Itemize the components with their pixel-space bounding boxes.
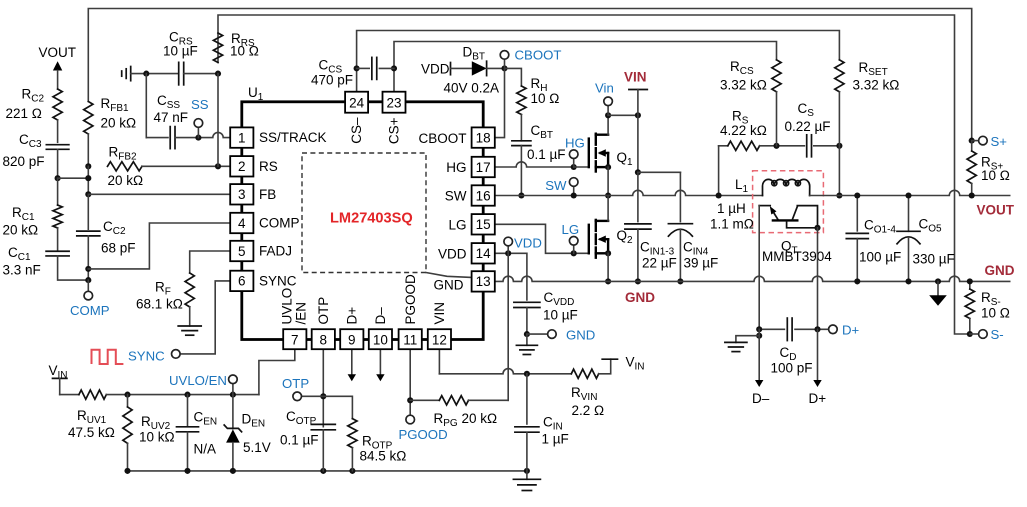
- svg-text:VIN: VIN: [624, 70, 647, 85]
- label CEN: [194, 410, 218, 428]
- svg-text:10 µF: 10 µF: [543, 308, 578, 323]
- svg-text:15: 15: [476, 217, 491, 232]
- pin 10 label D–: [373, 307, 388, 325]
- junction RS- top: [967, 278, 973, 284]
- net label GND (right): [985, 263, 1015, 278]
- label Q2: [617, 228, 634, 246]
- label CCS value: [311, 73, 353, 88]
- svg-text:20 kΩ: 20 kΩ: [3, 223, 39, 238]
- terminal COMP: [84, 280, 93, 300]
- wire RC1-CC1: [57, 228, 59, 251]
- label CIN4: [683, 240, 709, 258]
- junction RSET-VOUT: [836, 192, 842, 198]
- transistor QT (MMBT3904): [759, 206, 820, 231]
- svg-text:10 Ω: 10 Ω: [531, 91, 560, 106]
- svg-text:100 pF: 100 pF: [771, 361, 813, 376]
- net arrow pin9 D+: [348, 349, 356, 381]
- wire pin14 VDD: [483, 253, 527, 300]
- resistor RH: [517, 86, 526, 115]
- junction HG stub: [571, 164, 577, 170]
- terminal S+: [972, 136, 988, 145]
- svg-text:6: 6: [238, 274, 246, 289]
- pin 8 label OTP: [316, 297, 331, 325]
- transistor Q2 (low-side MOSFET): [589, 220, 611, 258]
- label CC3 value: [3, 154, 45, 169]
- IC U1 inner dashed box: [302, 153, 426, 273]
- terminal SW: [569, 178, 578, 196]
- resistor RRS: [213, 33, 222, 63]
- label Q1: [617, 150, 634, 168]
- wire RCS lower: [776, 92, 778, 146]
- ground (sideways) at CRS: [122, 67, 131, 81]
- pin 12 label VIN: [432, 302, 447, 325]
- wire CO5 upper: [905, 192, 911, 231]
- junction COMP node: [85, 277, 91, 283]
- junction RRS bottom node: [215, 71, 221, 77]
- wire PGOOD-RPG: [410, 399, 439, 401]
- pin 8 box: [312, 329, 335, 349]
- terminal HG: [569, 150, 578, 167]
- svg-text:7: 7: [291, 332, 299, 347]
- label RS: [732, 109, 749, 127]
- label DBT value: [444, 81, 500, 96]
- svg-text:16: 16: [476, 188, 491, 203]
- pin 1 box: [230, 127, 253, 147]
- resistor RUV2: [123, 395, 132, 471]
- pin 13 box: [472, 271, 495, 291]
- svg-text:820 pF: 820 pF: [3, 154, 45, 169]
- label CC1: [8, 245, 31, 263]
- label CVDD value: [543, 308, 578, 323]
- label S+: [991, 134, 1008, 149]
- junction DEN bottom: [230, 468, 236, 474]
- label RCS: [730, 59, 754, 77]
- junction RS+-VOUT: [969, 192, 975, 198]
- svg-text:HG: HG: [446, 160, 466, 175]
- wire RPG to VDD: [469, 399, 509, 401]
- diode DBT: [472, 61, 487, 75]
- wire RUV1 to UVLO node: [106, 394, 259, 396]
- capacitor CC2: [77, 231, 100, 236]
- label U1: [248, 85, 264, 103]
- capacitor CVDD: [514, 302, 540, 307]
- junction CCS right: [391, 65, 397, 71]
- capacitor CC1: [46, 251, 69, 256]
- pin 5 box: [230, 241, 253, 261]
- junction CBT-SW: [518, 192, 524, 198]
- svg-text:PGOOD: PGOOD: [399, 427, 448, 442]
- label CSS: [157, 93, 180, 111]
- resistor RF: [185, 273, 194, 307]
- wire COTP lower: [322, 430, 324, 471]
- wire CS-RSET: [814, 145, 840, 147]
- wire RFB1-FB node: [87, 134, 89, 166]
- wire VOUT rail: [810, 190, 1010, 195]
- svg-text:D+: D+: [345, 307, 360, 325]
- wire FB column mid: [87, 166, 89, 194]
- wire gnd-CRS: [131, 73, 179, 75]
- wire CC1 to COMP node: [58, 256, 89, 280]
- label RFB2 value: [108, 173, 144, 188]
- wire node-RC1: [57, 178, 59, 205]
- label ROTP value: [360, 449, 407, 464]
- junction RRS-RS node: [215, 163, 221, 169]
- svg-text:0.1 µF: 0.1 µF: [527, 147, 566, 162]
- label CO5 value: [913, 252, 955, 267]
- label RUV2 value: [139, 430, 175, 445]
- ground at D-: [725, 336, 759, 352]
- label RS value: [720, 123, 767, 138]
- wire CO5 lower: [905, 237, 911, 284]
- power ground symbol: [929, 278, 947, 305]
- wire VDD-DBT: [451, 67, 472, 69]
- terminal UVLO/EN: [229, 375, 238, 395]
- svg-text:VDD: VDD: [514, 236, 542, 251]
- label CD value: [771, 361, 813, 376]
- wire comp-node to FB column: [58, 177, 89, 179]
- label COTP: [286, 409, 317, 427]
- label HG: [565, 136, 585, 151]
- junction COTP bottom: [320, 468, 326, 474]
- transistor Q1 (high-side MOSFET): [589, 134, 611, 172]
- svg-text:D–: D–: [752, 391, 770, 406]
- svg-text:3: 3: [238, 187, 246, 202]
- label RPG: [434, 411, 498, 429]
- wire RRS down to RS node: [217, 74, 219, 167]
- label RH value: [531, 91, 560, 106]
- svg-text:47.5 kΩ: 47.5 kΩ: [68, 425, 115, 440]
- wire pin8 OTP: [322, 349, 324, 427]
- capacitor CSS: [170, 127, 175, 149]
- pin 7 label UVLO/EN: [280, 288, 309, 325]
- svg-text:1.1 mΩ: 1.1 mΩ: [710, 217, 754, 232]
- zener diode DEN: [224, 395, 241, 471]
- svg-text:VDD: VDD: [438, 247, 467, 262]
- svg-text:COMP: COMP: [259, 216, 300, 231]
- label D+ terminal: [842, 323, 860, 338]
- svg-text:RS: RS: [259, 159, 278, 174]
- pin 23 label CS+: [387, 117, 402, 144]
- svg-text:18: 18: [476, 130, 491, 145]
- pin 7 box: [283, 329, 306, 349]
- pin 3 label FB: [259, 187, 276, 202]
- svg-text:S+: S+: [991, 134, 1008, 149]
- wire pin12 VIN: [439, 369, 571, 374]
- svg-text:VOUT: VOUT: [39, 45, 77, 60]
- svg-text:0.1 µF: 0.1 µF: [280, 433, 319, 448]
- label CBT: [531, 123, 554, 141]
- wire Q2 source to GND rail: [607, 253, 609, 281]
- label RRS: [231, 31, 255, 49]
- wire S- sense line (top): [218, 15, 970, 334]
- pin 23 box: [383, 92, 406, 113]
- svg-text:40V 0.2A: 40V 0.2A: [444, 81, 500, 96]
- svg-text:14: 14: [476, 246, 492, 261]
- junction CIN4 gnd: [677, 278, 683, 284]
- pin 12 box: [428, 329, 451, 349]
- wire CIN1-3 upper: [637, 172, 639, 221]
- label RUV1: [77, 408, 107, 426]
- svg-text:10 Ω: 10 Ω: [981, 168, 1010, 183]
- junction RFB2 tap: [85, 163, 91, 169]
- junction CIN1-3 gnd: [635, 278, 641, 284]
- junction RUV2 top: [124, 392, 130, 398]
- wire CIN4 upper: [679, 172, 681, 221]
- label CC2: [103, 219, 126, 237]
- terminal GND (analog): [527, 330, 556, 339]
- label RFB2: [109, 145, 138, 163]
- svg-text:D+: D+: [809, 391, 827, 406]
- wire QT base to D+ node: [817, 228, 819, 329]
- wire Vin to VIN supply: [608, 114, 638, 116]
- wire RS left leg: [716, 146, 722, 199]
- capacitor CEN: [177, 395, 199, 471]
- wire CIN1-3 lower: [637, 229, 639, 281]
- wire HG to Q1 gate: [574, 166, 589, 168]
- pin 9 label D+: [345, 307, 360, 325]
- svg-text:10 µF: 10 µF: [163, 44, 198, 59]
- label SW: [545, 178, 567, 193]
- supply VIN (input): [599, 359, 618, 374]
- wire RSET lower: [838, 92, 840, 146]
- ground at RF: [178, 307, 201, 335]
- svg-text:10 Ω: 10 Ω: [981, 306, 1010, 321]
- capacitor CCS: [372, 57, 377, 79]
- label CSS value: [154, 110, 189, 125]
- pin 14 box: [472, 243, 495, 263]
- junction LG stub: [571, 250, 577, 256]
- pin 15 label LG: [448, 218, 466, 233]
- svg-text:2.2 Ω: 2.2 Ω: [572, 403, 605, 418]
- label VDD: [514, 236, 542, 251]
- wire CCS left: [357, 67, 370, 69]
- net label VOUT (right): [977, 203, 1015, 218]
- svg-text:SS: SS: [191, 97, 209, 112]
- pin 4 box: [230, 213, 253, 233]
- wire RC2-CC3: [57, 120, 59, 142]
- label L1 value: [717, 201, 746, 216]
- svg-text:11: 11: [403, 332, 417, 347]
- wire thermal pad to GND pin13: [426, 273, 471, 278]
- label RS+: [981, 155, 1003, 173]
- wire CO1-4 upper: [854, 192, 860, 230]
- wire RS left: [719, 145, 728, 147]
- svg-text:100 µF: 100 µF: [859, 250, 901, 265]
- pin 17 box: [472, 157, 495, 177]
- wire CBOOT to pin18: [483, 68, 504, 137]
- junction Vin node: [605, 112, 611, 118]
- wire CC3-node: [57, 149, 59, 178]
- pin 2 box: [230, 156, 253, 176]
- wire RH-CBT: [520, 115, 522, 141]
- wire pin15 LG: [483, 224, 589, 253]
- wire pin17 HG with hop: [483, 162, 574, 167]
- label S-: [991, 327, 1004, 342]
- terminal VDD: [504, 237, 513, 253]
- capacitor CRS: [179, 62, 184, 85]
- capacitor CIN1-3: [625, 224, 651, 229]
- terminal PGOOD: [406, 415, 415, 424]
- svg-text:SW: SW: [445, 189, 467, 204]
- capacitor CO5 (polarized): [897, 231, 920, 244]
- svg-text:10 kΩ: 10 kΩ: [139, 430, 175, 445]
- svg-text:4.22 kΩ: 4.22 kΩ: [720, 123, 767, 138]
- wire pin24 to RSET: [357, 31, 840, 92]
- wire VIN column: [637, 115, 639, 172]
- label DEN: [242, 412, 266, 430]
- net arrow VOUT: [53, 61, 62, 89]
- pin 24 box: [345, 92, 368, 113]
- wire bottom gnd rail: [128, 470, 527, 472]
- label DEN value: [243, 440, 271, 455]
- label COMP: [70, 303, 110, 318]
- svg-text:1: 1: [238, 130, 246, 145]
- wire CCS right: [379, 67, 394, 69]
- svg-text:SS/TRACK: SS/TRACK: [259, 130, 327, 145]
- label RFB1: [101, 96, 130, 114]
- pin 18 box: [472, 127, 495, 147]
- resistor RPG: [439, 396, 468, 405]
- pin 5 label FADJ: [259, 244, 292, 259]
- label D-: [752, 391, 770, 406]
- net arrow D+: [813, 329, 821, 387]
- svg-text:SYNC: SYNC: [128, 349, 165, 364]
- junction CVDD gnd node: [524, 331, 530, 337]
- junction PGOOD node: [407, 397, 413, 403]
- capacitor CO1-4: [846, 233, 868, 238]
- wire Q2 drain to SW rail: [607, 196, 609, 221]
- pin 13 label GND: [434, 278, 464, 293]
- terminal D+: [829, 325, 838, 334]
- junction D- gnd tap: [756, 333, 762, 339]
- terminal SYNC: [172, 350, 181, 359]
- label L1 DCR: [710, 217, 754, 232]
- label SS: [191, 97, 209, 112]
- terminal S-: [970, 330, 987, 339]
- wire CIN bridge: [638, 171, 681, 173]
- wire SW rail: [483, 190, 762, 195]
- svg-text:0.22 µF: 0.22 µF: [785, 119, 831, 134]
- label CIN1-3: [640, 240, 675, 258]
- label CS: [798, 101, 815, 119]
- label UVLO/EN: [169, 373, 227, 388]
- wire DBT-CBOOT node: [487, 67, 505, 69]
- pin 11 label PGOOD: [403, 274, 418, 325]
- supply VIN: [629, 90, 647, 116]
- wire pin6 SYNC: [180, 281, 230, 354]
- svg-text:22 µF: 22 µF: [642, 256, 677, 271]
- net label GND (mid): [625, 290, 655, 305]
- junction CIN bottom: [524, 468, 530, 474]
- resistor RSET: [835, 60, 844, 92]
- svg-text:5.1V: 5.1V: [243, 440, 271, 455]
- junction Q2-GND: [605, 278, 611, 284]
- junction RSET node: [836, 143, 842, 149]
- label CIN value: [542, 432, 569, 447]
- terminal SS: [194, 119, 203, 138]
- inductor L1: [763, 179, 810, 195]
- svg-text:CS+: CS+: [387, 117, 402, 144]
- pin 4 label COMP: [259, 216, 300, 231]
- label RVIN value: [572, 403, 605, 418]
- ground at CVDD: [516, 334, 537, 354]
- junction S- node: [967, 331, 973, 337]
- svg-text:24: 24: [349, 95, 365, 110]
- resistor ROTP: [348, 419, 357, 448]
- label OTP: [282, 376, 309, 391]
- label PGOOD: [399, 427, 448, 442]
- label CO5: [919, 217, 943, 235]
- svg-text:S-: S-: [991, 327, 1004, 342]
- svg-text:UVLO/EN: UVLO/EN: [169, 373, 227, 388]
- pin 1 label SS/TRACK: [259, 130, 327, 145]
- resistor RC2: [53, 89, 62, 120]
- svg-text:23: 23: [386, 95, 401, 110]
- wire CVDD to agnd: [526, 308, 528, 335]
- resistor RS-: [965, 281, 974, 334]
- wire Q1 drain: [607, 115, 609, 134]
- label RRS value: [230, 44, 259, 59]
- capacitor CD: [787, 318, 792, 341]
- label RH: [531, 76, 548, 94]
- label CEN value: [194, 442, 217, 457]
- svg-text:CS–: CS–: [349, 117, 364, 144]
- svg-text:COMP: COMP: [70, 303, 110, 318]
- resistor RVIN: [571, 369, 598, 378]
- label L1: [735, 177, 749, 195]
- svg-text:9: 9: [348, 332, 356, 347]
- junction CIN top: [524, 371, 530, 377]
- resistor RS: [728, 141, 760, 150]
- svg-text:PGOOD: PGOOD: [403, 274, 418, 325]
- resistor RFB1: [84, 102, 93, 135]
- label GND terminal: [566, 328, 595, 343]
- junction comp-tap: [85, 175, 91, 181]
- label QT: [781, 239, 798, 257]
- svg-text:LM27403SQ: LM27403SQ: [330, 211, 413, 227]
- svg-text:10 Ω: 10 Ω: [230, 44, 259, 59]
- wire QT emitter to D- node: [758, 206, 760, 330]
- junction DEN top: [230, 392, 236, 398]
- net label VIN: [624, 70, 647, 85]
- terminal LG: [569, 237, 578, 254]
- svg-text:OTP: OTP: [316, 297, 331, 325]
- label COTP value: [280, 433, 319, 448]
- wire RFB2 to pin2: [142, 165, 230, 167]
- svg-text:84.5 kΩ: 84.5 kΩ: [360, 449, 407, 464]
- label SYNC: [128, 349, 165, 364]
- svg-text:VOUT: VOUT: [977, 203, 1015, 218]
- label RC1 value: [3, 223, 39, 238]
- label RS+ value: [981, 168, 1010, 183]
- wire ROTP lower: [351, 448, 353, 471]
- net arrow pin10 D-: [376, 349, 384, 381]
- svg-text:470 pF: 470 pF: [311, 73, 353, 88]
- pin 24 label CS-: [349, 117, 364, 144]
- label RC2 value: [6, 106, 42, 121]
- svg-text:20 kΩ: 20 kΩ: [101, 116, 137, 131]
- wire OTP to ROTP: [323, 396, 352, 418]
- label CO1-4: [864, 218, 896, 236]
- wire FB to pin3: [88, 193, 230, 195]
- wire VDD to RPG pullup: [507, 253, 509, 400]
- capacitor CIN4 (polarized): [668, 224, 692, 237]
- wire CRS-RRS node: [184, 73, 218, 75]
- thermal dashed box: [753, 171, 824, 233]
- svg-text:D–: D–: [373, 307, 388, 325]
- net label VOUT (top left): [39, 45, 77, 60]
- svg-text:D+: D+: [842, 323, 860, 338]
